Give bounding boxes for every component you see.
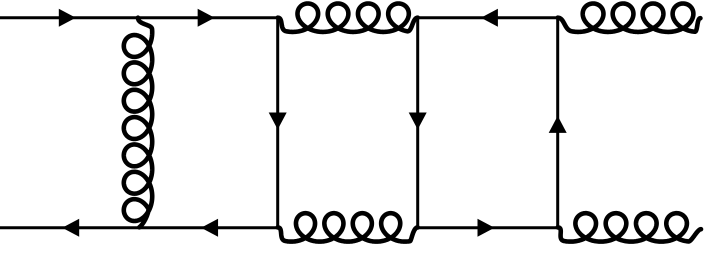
arrow vertical-2 (down)	[409, 113, 427, 130]
wire bottom fermion segment (middle)	[416, 226, 559, 229]
gluon bottom internal	[278, 213, 418, 241]
arrow top-left (right)	[59, 9, 76, 27]
arrow bottom-middle (right)	[478, 219, 495, 237]
wire vertical fermion 2	[416, 16, 419, 229]
wire bottom fermion line (left)	[0, 226, 279, 229]
wire top fermion line (left)	[0, 16, 279, 19]
arrow top-second (right)	[198, 9, 215, 27]
gluon bottom external (right)	[558, 213, 701, 241]
arrow bottom-second (left)	[201, 219, 218, 237]
gluon top external (right)	[558, 4, 701, 32]
arrow vertical-1 (down)	[269, 113, 287, 130]
wire top fermion segment (middle)	[416, 16, 559, 19]
gluon top internal	[278, 4, 418, 32]
arrow top-middle (left)	[481, 9, 498, 27]
gluon vertical internal	[124, 18, 152, 228]
arrow bottom-left (left)	[62, 219, 79, 237]
wire vertical fermion 1	[276, 16, 279, 229]
wire vertical fermion 3	[556, 16, 559, 229]
arrow vertical-3 (up)	[549, 116, 567, 133]
